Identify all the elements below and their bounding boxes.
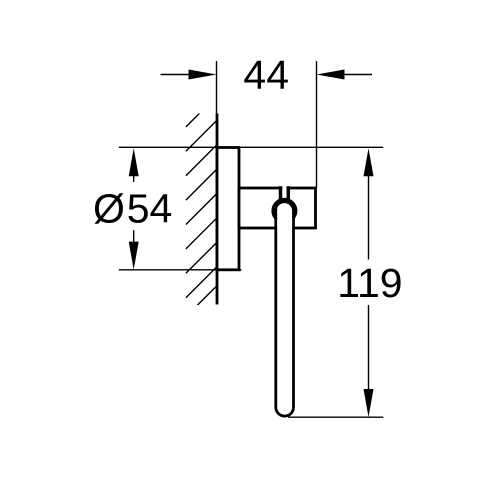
arrow 44 right [317,70,345,80]
pivot cap [274,200,295,217]
dimension line dia54 top segment [133,172,135,182]
pin right stroke [287,186,291,199]
dimension line 44 left segment [161,74,197,76]
wall line [216,114,219,305]
pin left stroke [279,186,283,199]
svg-text:Ø: Ø [93,186,125,232]
svg-text:54: 54 [127,186,173,232]
pin slot (white) [282,186,286,197]
arrow 119 up [364,148,374,176]
dimension line 119 bottom segment [368,305,370,395]
dimension line 44 right segment [337,74,372,76]
wall plate (side view) [217,148,239,270]
svg-text:44: 44 [243,52,289,98]
arrow 119 down [364,389,374,417]
arrow dia54 up [129,148,139,176]
mounting arm [239,188,316,228]
dimension line 119 top segment [368,172,370,260]
wall hatching [186,96,217,317]
extension line dia54 bottom [119,269,242,271]
extension line 44 right [316,61,318,188]
extension line 119 bottom [288,416,383,418]
extension line top (plate top, shared by dia54 and 119) [119,146,384,148]
holder bar (stadium) [276,206,294,416]
pivot cap inner clear [277,211,292,227]
dimension line dia54 bottom segment [133,230,135,246]
arrow 44 left [189,70,217,80]
svg-text:119: 119 [337,260,402,306]
extension line 44 left (above wall) [216,61,218,114]
arrow dia54 down [129,242,139,270]
